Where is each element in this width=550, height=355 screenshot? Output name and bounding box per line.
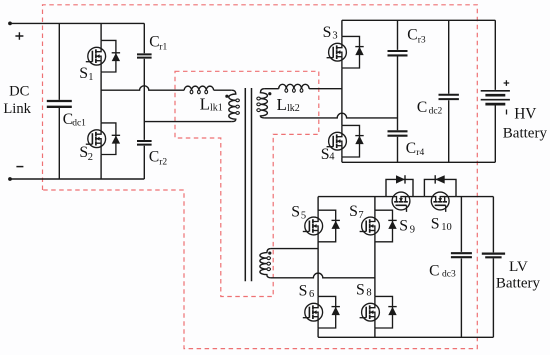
capacitor Cr4 — [388, 131, 408, 135]
transformer core — [245, 88, 251, 281]
wire: bottom winding lower terminal with hop over S5/S6 leg — [271, 273, 375, 278]
label tick of HV battery — [506, 110, 508, 115]
label + — [15, 32, 23, 40]
wire: Cr3/Cr4 bus — [397, 20, 399, 162]
node: + terminal dot — [8, 22, 12, 26]
inductor Llk2 — [279, 84, 309, 88]
svg-text:C: C — [407, 27, 417, 44]
svg-text:S: S — [323, 24, 332, 41]
svg-text:LV: LV — [509, 258, 528, 275]
dashed boundary: transformer region — [175, 71, 319, 296]
battery HV leads — [494, 20, 496, 162]
wire: bottom winding top terminal to S5/S6 midpoint — [271, 248, 318, 250]
inductor Llk1 crossing loops — [190, 90, 208, 94]
svg-text:S: S — [349, 203, 358, 220]
diode of S8 — [375, 296, 397, 328]
diode of S7 — [375, 210, 397, 242]
transistor S4 — [327, 125, 347, 157]
wire: Cdc3 bus — [460, 197, 462, 338]
svg-text:S: S — [399, 217, 408, 234]
wire: HV bottom rail — [342, 161, 495, 163]
node: - terminal dot — [8, 177, 12, 181]
node: primary phase dot — [225, 95, 228, 98]
svg-text:3: 3 — [332, 31, 337, 42]
capacitor Cdc2 — [439, 95, 459, 99]
diode of S4 — [342, 125, 364, 157]
svg-text:8: 8 — [366, 288, 371, 299]
node: secondary top phase dot — [268, 92, 271, 95]
diode of S1 — [101, 40, 120, 72]
svg-text:r4: r4 — [416, 148, 424, 158]
svg-text:C: C — [406, 140, 416, 157]
transistor S5 — [303, 210, 323, 242]
svg-text:Battery: Battery — [503, 126, 548, 142]
svg-text:S: S — [79, 65, 88, 82]
transformer secondary top winding — [260, 89, 267, 118]
wire: Cr1/Cr2 bus — [143, 23, 145, 179]
diode of S2 — [101, 123, 120, 155]
svg-text:S: S — [321, 146, 330, 163]
svg-text:dc2: dc2 — [429, 107, 443, 117]
svg-text:r2: r2 — [159, 158, 167, 168]
svg-text:S: S — [356, 282, 365, 299]
svg-text:HV: HV — [514, 105, 536, 122]
wire: S7/S8 leg — [374, 197, 376, 338]
wire: LV bottom rail — [318, 336, 493, 338]
svg-text:2: 2 — [88, 152, 93, 163]
svg-text:10: 10 — [441, 222, 452, 233]
wire: HV top rail — [342, 19, 495, 21]
svg-text:L: L — [277, 95, 287, 114]
transistor S9 — [385, 192, 417, 212]
svg-text:Link: Link — [3, 101, 31, 117]
node: secondary bottom phase dot — [268, 252, 271, 255]
diode D9 — [404, 175, 406, 183]
svg-text:5: 5 — [301, 211, 306, 222]
transformer secondary bottom winding — [260, 249, 271, 278]
battery HV plates — [481, 91, 510, 100]
transformer primary winding — [229, 90, 236, 121]
transistor S2 — [86, 123, 106, 155]
capacitor Cr1 — [137, 54, 152, 57]
svg-text:C: C — [417, 99, 427, 116]
battery LV plates — [482, 253, 505, 255]
wire: Llk1 to primary — [214, 89, 232, 91]
battery LV leads — [492, 197, 494, 338]
svg-text:4: 4 — [329, 152, 335, 163]
wire: secondary bottom return with hop over HV leg — [264, 113, 397, 118]
label - — [16, 166, 23, 168]
wire: S5/S6 leg — [317, 197, 319, 338]
capacitor Cr2 — [137, 141, 152, 145]
dashed boundary: main converter outline — [43, 5, 478, 349]
secondary top winding crossing loops — [257, 97, 261, 111]
svg-text:6: 6 — [309, 289, 314, 300]
svg-text:lk1: lk1 — [210, 103, 223, 114]
wire: Llk2 to HV leg midpoint — [309, 88, 342, 90]
wire: secondary top to Llk2 — [264, 88, 278, 90]
svg-text:9: 9 — [410, 224, 415, 235]
label + of HV battery — [504, 80, 510, 86]
diode of S5 — [318, 210, 340, 242]
inductor Llk2 crossing loops — [285, 89, 303, 93]
diode of S6 — [318, 296, 340, 328]
transistor S10 — [424, 192, 456, 212]
transistor S1 — [86, 40, 106, 72]
svg-text:Battery: Battery — [496, 275, 541, 291]
wire: S3/S4 leg — [341, 20, 343, 162]
svg-text:DC: DC — [9, 83, 29, 99]
wire: LV top rail — [318, 196, 493, 198]
diode loop S10 — [424, 179, 456, 196]
svg-text:1: 1 — [88, 72, 93, 83]
diode loop S9 — [386, 179, 413, 196]
svg-text:lk2: lk2 — [287, 103, 300, 114]
svg-text:S: S — [291, 204, 300, 221]
svg-text:C: C — [429, 262, 439, 279]
svg-text:7: 7 — [358, 210, 363, 221]
wire: bridge midpoint to Llk1 with hop over Cr bus — [101, 86, 184, 90]
transistor S6 — [303, 296, 323, 328]
transistor S8 — [360, 296, 380, 328]
svg-text:S: S — [431, 215, 440, 232]
svg-text:L: L — [200, 95, 210, 114]
svg-text:r1: r1 — [159, 43, 167, 53]
svg-text:C: C — [149, 149, 159, 166]
wire: Cdc1 bus — [58, 23, 60, 179]
capacitor Cdc3 — [451, 253, 472, 257]
primary winding crossing loops — [236, 99, 240, 114]
svg-text:S: S — [299, 283, 308, 300]
wire: primary return to Cr midpoint — [144, 121, 232, 123]
wire: DC link bottom rail — [10, 178, 144, 180]
capacitor Cr3 — [388, 51, 408, 55]
wire: DC link top rail — [10, 22, 144, 24]
diode of S3 — [342, 36, 364, 68]
svg-text:dc3: dc3 — [442, 269, 456, 279]
secondary bottom winding crossing loops — [267, 257, 271, 271]
wire: Cdc2 bus — [448, 20, 450, 162]
transistor S7 — [360, 210, 380, 242]
diode D10 — [434, 175, 436, 183]
wire: S1/S2 leg — [100, 23, 102, 179]
inductor Llk1 — [184, 86, 213, 90]
transistor S3 — [327, 36, 347, 68]
svg-text:C: C — [149, 34, 159, 51]
capacitor Cdc1 — [47, 101, 72, 107]
svg-text:dc1: dc1 — [72, 119, 86, 129]
svg-text:r3: r3 — [418, 35, 426, 45]
